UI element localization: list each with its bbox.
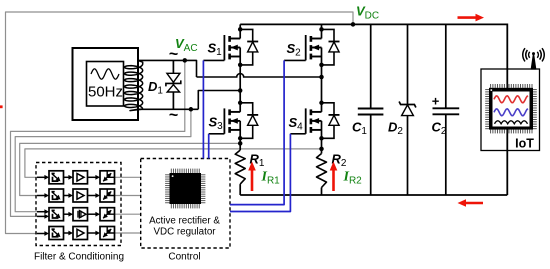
- diode D1 symbol: [166, 73, 181, 92]
- svg-text:Active rectifier &: Active rectifier &: [149, 216, 220, 227]
- wire: C2 branch vertical: [445, 24, 447, 108]
- control MCU chip (QFP): [165, 169, 205, 209]
- node: S3 source node: [238, 136, 243, 141]
- filter row 4 blocks: [37, 227, 115, 240]
- node: S4 source node: [319, 136, 324, 141]
- wire: right-side vertical (IoT load branch): [506, 24, 508, 196]
- capacitor C1: [358, 108, 384, 110]
- capacitor C2 (polarized): [433, 107, 460, 109]
- node: VDC node: [351, 22, 356, 27]
- wire: R2 voltage sense (grey to filter row 1): [25, 149, 322, 177]
- wire: gate drive S2 (blue): [230, 60, 284, 204]
- wire: AC riser to cross wire B: [198, 91, 240, 110]
- wire: left bridge leg vertical segments: [239, 24, 241, 38]
- red mark at left edge (input current): [0, 105, 3, 108]
- wire: bottom AC rail from transformer: [138, 108, 198, 110]
- transistor S4 (MOSFET): [290, 103, 339, 139]
- IoT chip with waveforms: [485, 84, 537, 133]
- wire: VDC sense (grey, top-left loop to filter row 4): [6, 12, 354, 234]
- svg-text:50Hz: 50Hz: [88, 84, 123, 101]
- wire: R1 bottom to rail: [239, 184, 241, 195]
- wire: AC cross wire to right leg (with hop over left leg): [197, 74, 322, 77]
- wire: top AC rail from transformer to bridge: [138, 60, 197, 77]
- node: S1 source node: [238, 63, 243, 68]
- wire: bottom return rail: [240, 194, 507, 196]
- node: VAC top node: [183, 58, 188, 63]
- transistor S3 (MOSFET): [209, 103, 259, 139]
- wire: filter outputs to control block (grey): [115, 176, 141, 178]
- red arrow: IR2 current direction: [332, 169, 335, 191]
- svg-text:+: +: [432, 94, 440, 109]
- svg-text:Control: Control: [168, 252, 200, 263]
- filter & conditioning dashed box: [36, 163, 121, 246]
- antenna: [523, 48, 545, 69]
- svg-text:~: ~: [169, 107, 178, 124]
- svg-text:Filter & Conditioning: Filter & Conditioning: [34, 252, 124, 263]
- red arrow: IR1 current direction: [251, 169, 254, 191]
- wire: gate drive S4 (blue): [230, 134, 290, 212]
- node: S3 drain node: [238, 101, 243, 106]
- wire: R1 voltage sense (grey to filter row 2): [20, 143, 241, 195]
- svg-text:VDC regulator: VDC regulator: [153, 227, 216, 238]
- node: S1 drain-diode node: [238, 27, 243, 32]
- node: VAC bottom node: [189, 107, 194, 112]
- node: S4 drain node: [319, 101, 324, 106]
- wire: gate drive S3 (blue): [208, 134, 210, 159]
- sine symbol in source: [91, 69, 119, 79]
- wire: gate drive S1 (blue): [202, 60, 204, 158]
- filter row 2 blocks: [37, 189, 115, 202]
- wire: D2 branch vertical: [407, 24, 409, 104]
- node: left midpoint node: [238, 88, 243, 93]
- node: S2 source node: [319, 63, 324, 68]
- svg-text:IoT: IoT: [515, 137, 534, 151]
- wire: VAC top-terminal sense (grey to filter row 3 lower input): [11, 60, 185, 216]
- resistor R2: [317, 154, 327, 188]
- transistor S1 (MOSFET): [203, 29, 258, 65]
- wire: right bridge leg vertical segments: [321, 24, 323, 38]
- source block inner box (50Hz generator): [87, 62, 124, 107]
- red arrow: output current (top right): [458, 16, 478, 19]
- red arrow: return current (bottom): [465, 202, 484, 205]
- wire: R2 bottom to rail: [321, 188, 323, 196]
- diode D1 (bidirectional TVS) wire: [172, 60, 174, 109]
- IoT device box: [481, 69, 540, 151]
- transistor S2 (MOSFET): [284, 29, 339, 65]
- node: S2 drain-diode node: [319, 27, 324, 32]
- node: R1 sense node: [238, 141, 243, 146]
- source block outer box: [73, 48, 139, 120]
- diode D2 (zener): [399, 102, 416, 108]
- node: R2 sense node: [319, 147, 324, 152]
- wire: VAC bottom-terminal sense (grey to filter row 3 upper input): [15, 109, 191, 211]
- wire: IoT branch visible inside box: [506, 69, 508, 151]
- filter row 3 blocks: [37, 208, 115, 221]
- node: right midpoint node: [319, 75, 324, 80]
- transformer coil winding: [125, 60, 143, 110]
- filter row 1 blocks: [37, 171, 115, 184]
- wire: VDC top bus: [240, 23, 507, 25]
- control dashed box: [141, 159, 230, 249]
- wire: C1 branch vertical: [370, 24, 372, 108]
- resistor R1: [235, 150, 245, 184]
